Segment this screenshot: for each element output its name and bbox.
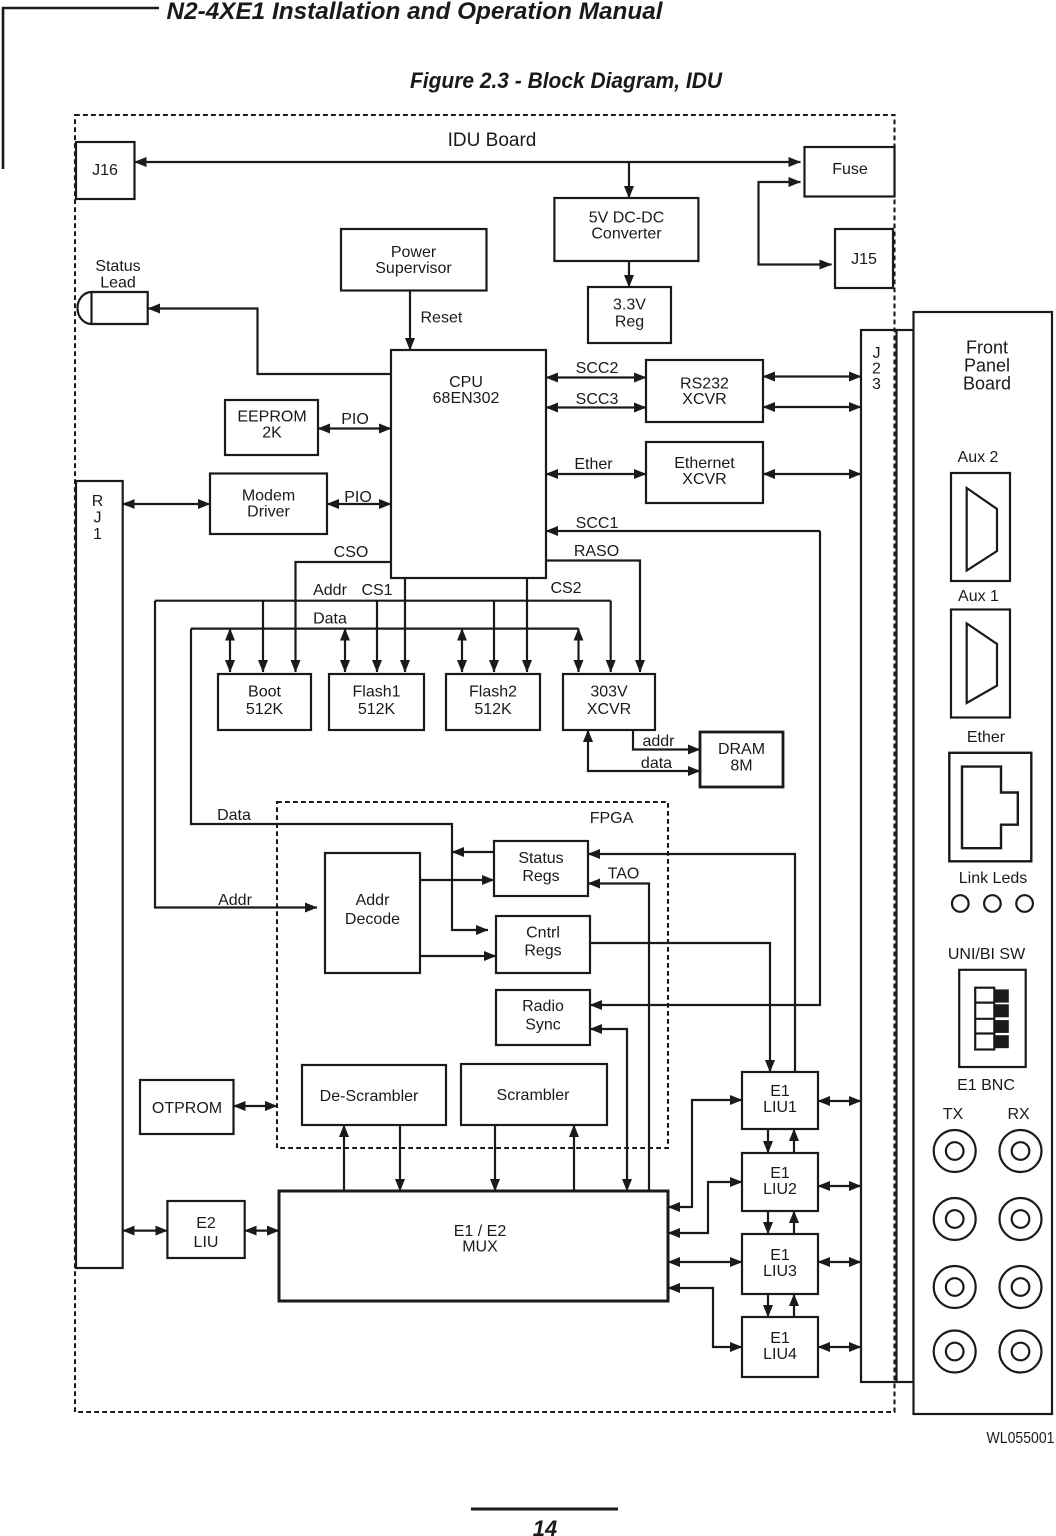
node E2 LIU — [167, 1201, 244, 1258]
wire Addr drop 303V — [610, 601, 612, 672]
wire to 5V converter — [628, 162, 630, 198]
svg-text:DRAM: DRAM — [718, 741, 765, 758]
svg-text:Regs: Regs — [522, 868, 559, 885]
wire LIU4 to LIU3 up — [793, 1294, 795, 1317]
wire data 303V to DRAM — [588, 730, 700, 771]
BNC TX 2 — [934, 1198, 976, 1240]
svg-text:SCC2: SCC2 — [576, 360, 619, 377]
svg-text:E1 BNC: E1 BNC — [957, 1077, 1015, 1094]
node J15 — [835, 229, 893, 288]
svg-text:XCVR: XCVR — [682, 391, 726, 408]
svg-text:data: data — [641, 755, 672, 772]
svg-text:1: 1 — [93, 526, 102, 543]
svg-text:Decode: Decode — [345, 911, 400, 928]
node Boot 512K — [218, 674, 311, 730]
wire MUX to De-Scrambler — [343, 1125, 345, 1191]
node Radio Sync — [496, 990, 590, 1045]
wire RJ1 to Modem Driver — [123, 503, 210, 505]
wire CS1 — [404, 578, 406, 672]
svg-text:PIO: PIO — [341, 411, 369, 428]
wire Data bus — [191, 627, 579, 629]
node J23 — [861, 330, 914, 1382]
node E1 LIU3 — [742, 1234, 818, 1294]
link led 2 — [984, 895, 1001, 912]
svg-text:Reg: Reg — [615, 314, 644, 331]
svg-text:Scrambler: Scrambler — [497, 1087, 571, 1104]
wire MUX to Scrambler — [573, 1125, 575, 1191]
svg-text:J: J — [873, 345, 881, 362]
page corner rule — [3, 8, 159, 169]
svg-text:303V: 303V — [590, 684, 628, 701]
wire Status Regs to data line — [452, 851, 494, 853]
svg-text:Flash2: Flash2 — [469, 684, 517, 701]
svg-text:WL055001: WL055001 — [987, 1430, 1055, 1447]
wire LIU3 to LIU4 down — [767, 1294, 769, 1317]
node Front Panel Board — [914, 312, 1053, 1414]
svg-text:SCC3: SCC3 — [576, 391, 619, 408]
svg-text:512K: 512K — [474, 701, 512, 718]
BNC TX 4 — [934, 1331, 976, 1373]
svg-text:Flash1: Flash1 — [352, 684, 400, 701]
node Modem Driver — [210, 474, 327, 535]
wire MUX to LIU3 — [668, 1261, 742, 1263]
svg-text:Ethernet: Ethernet — [674, 455, 735, 472]
svg-text:Addr: Addr — [356, 892, 390, 909]
svg-text:CS1: CS1 — [361, 582, 392, 599]
wire 5V to 3.3V reg — [628, 261, 630, 287]
svg-text:14: 14 — [533, 1516, 557, 1536]
wire LIU1 to Status Regs — [588, 854, 795, 1072]
wire Fuse to J15 — [759, 182, 832, 265]
svg-text:Front: Front — [966, 338, 1008, 358]
status LED — [78, 292, 148, 324]
node E1 LIU2 — [742, 1153, 818, 1211]
wire RJ1 to E2 LIU — [123, 1229, 168, 1231]
node Power Supervisor — [341, 229, 487, 291]
svg-text:RX: RX — [1007, 1106, 1030, 1123]
BNC TX 1 — [934, 1130, 976, 1172]
svg-text:Addr: Addr — [218, 892, 252, 909]
svg-text:De-Scrambler: De-Scrambler — [320, 1088, 419, 1105]
svg-text:TAO: TAO — [608, 866, 640, 883]
wire Data drop Boot — [229, 629, 231, 672]
node E1/E2 MUX — [279, 1191, 668, 1301]
wire PIO Modem to CPU — [327, 503, 391, 505]
svg-text:Power: Power — [391, 244, 437, 261]
wire MUX to LIU1 — [668, 1100, 742, 1207]
svg-text:E1: E1 — [770, 1083, 790, 1100]
svg-text:Ether: Ether — [574, 456, 613, 473]
wire LIU2 to LIU1 up — [793, 1129, 795, 1153]
wire LIU1 to LIU2 down — [767, 1129, 769, 1153]
wire Addr drop Flash1 — [376, 601, 378, 672]
svg-text:addr: addr — [642, 733, 675, 750]
svg-text:Aux 2: Aux 2 — [958, 449, 999, 466]
svg-text:8M: 8M — [730, 758, 752, 775]
svg-text:Regs: Regs — [524, 943, 561, 960]
link led 3 — [1016, 895, 1033, 912]
wire MUX to LIU4 — [668, 1288, 742, 1347]
connector Aux 2 — [951, 473, 1010, 581]
IDU board dashed border — [75, 115, 895, 1412]
wire Scrambler to MUX — [494, 1125, 496, 1191]
wire Addr bus — [155, 600, 611, 602]
wire RS232 to J23 upper — [763, 375, 861, 377]
wire Data drop Flash1 — [344, 629, 346, 672]
BNC TX 3 — [934, 1266, 976, 1308]
wire LIU1 to J23 — [818, 1100, 861, 1102]
svg-text:OTPROM: OTPROM — [152, 1100, 222, 1117]
svg-text:Ether: Ether — [967, 729, 1006, 746]
svg-text:E1: E1 — [770, 1247, 790, 1264]
svg-text:SCC1: SCC1 — [576, 515, 619, 532]
svg-text:Data: Data — [313, 611, 347, 628]
svg-text:Modem: Modem — [242, 487, 295, 504]
svg-text:Status: Status — [95, 258, 140, 275]
node E1 LIU1 — [742, 1072, 818, 1129]
node J16 — [76, 142, 135, 199]
wire CPU to status LED — [148, 309, 391, 375]
node Fuse — [805, 147, 895, 197]
svg-text:LIU: LIU — [194, 1234, 219, 1251]
connector Aux 1 — [951, 610, 1010, 718]
svg-text:E2: E2 — [196, 1215, 216, 1232]
node 303V XCVR — [563, 674, 655, 730]
svg-text:LIU3: LIU3 — [763, 1263, 797, 1280]
svg-text:2K: 2K — [262, 425, 282, 442]
wire De-Scrambler to MUX — [399, 1125, 401, 1191]
node Flash2 512K — [446, 674, 540, 730]
wire RASO — [546, 561, 640, 673]
svg-text:E1 / E2: E1 / E2 — [454, 1223, 507, 1240]
svg-text:LIU2: LIU2 — [763, 1181, 797, 1198]
wire PIO EEPROM to CPU — [318, 427, 391, 429]
wire LIU2 to LIU3 down — [767, 1211, 769, 1234]
svg-text:Status: Status — [518, 850, 563, 867]
svg-text:Aux 1: Aux 1 — [958, 588, 999, 605]
svg-text:UNI/BI SW: UNI/BI SW — [948, 946, 1026, 963]
svg-text:Link Leds: Link Leds — [959, 870, 1028, 887]
svg-text:N2-4XE1 Installation and Opera: N2-4XE1 Installation and Operation Manua… — [167, 0, 664, 25]
node Cntrl Regs — [496, 916, 590, 973]
dip switch UNI/BI — [959, 970, 1025, 1067]
node RJ1 — [76, 481, 123, 1268]
BNC RX 4 — [1000, 1331, 1042, 1373]
wire Ether — [546, 473, 646, 475]
svg-text:RS232: RS232 — [680, 376, 729, 393]
wire CS2 — [526, 578, 528, 672]
svg-text:XCVR: XCVR — [682, 471, 726, 488]
svg-text:EEPROM: EEPROM — [237, 409, 306, 426]
svg-text:Figure 2.3 - Block Diagram, ID: Figure 2.3 - Block Diagram, IDU — [410, 68, 723, 93]
wire LIU3 to J23 — [818, 1261, 861, 1263]
wire Data drop Flash2 — [461, 629, 463, 672]
link led 1 — [952, 895, 969, 912]
wire SCC2 — [546, 376, 646, 378]
wire Addr drop Flash2 — [493, 601, 495, 672]
node OTPROM — [140, 1080, 234, 1134]
wire addr 303V to DRAM — [633, 730, 700, 750]
node 5V DC-DC Converter — [554, 198, 698, 261]
wire Addr drop Boot — [262, 601, 264, 672]
node 3.3V Reg — [588, 287, 671, 343]
svg-text:Data: Data — [217, 807, 251, 824]
wire Reset: Power Supervisor to CPU — [409, 291, 411, 351]
svg-text:TX: TX — [943, 1106, 964, 1123]
svg-text:3.3V: 3.3V — [613, 297, 646, 314]
svg-text:Fuse: Fuse — [832, 161, 868, 178]
svg-text:2: 2 — [872, 361, 881, 378]
wire SCC1 from CPU — [546, 530, 820, 532]
svg-text:CS2: CS2 — [550, 580, 581, 597]
svg-text:512K: 512K — [358, 701, 396, 718]
svg-text:3: 3 — [872, 376, 881, 393]
wire Ethernet to J23 — [763, 473, 861, 475]
wire Cntrl Regs to LIU1 — [590, 943, 770, 1072]
node RS232 XCVR — [646, 360, 763, 422]
node CPU 68EN302 — [391, 350, 546, 578]
wire TAO: LIU mux line to Status Regs — [588, 884, 649, 1192]
wire CSO — [296, 562, 392, 672]
wire Addr Decode to Cntrl Regs — [420, 955, 496, 957]
svg-text:Addr: Addr — [313, 582, 347, 599]
node Ethernet XCVR — [646, 442, 763, 503]
wire Addr Decode to Status Regs — [420, 879, 494, 881]
wire E2 LIU to MUX — [245, 1229, 279, 1231]
wire LIU2 to J23 — [818, 1185, 861, 1187]
wire Radio Sync to MUX — [590, 1029, 627, 1191]
connector Ether RJ45 — [949, 753, 1031, 862]
node Scrambler — [461, 1064, 607, 1125]
svg-text:E1: E1 — [770, 1330, 790, 1347]
node Addr Decode — [325, 853, 420, 973]
node EEPROM 2K — [225, 400, 318, 455]
svg-text:Boot: Boot — [248, 684, 281, 701]
svg-text:MUX: MUX — [462, 1239, 498, 1256]
svg-text:Driver: Driver — [247, 503, 290, 520]
BNC RX 3 — [1000, 1266, 1042, 1308]
svg-text:Cntrl: Cntrl — [526, 925, 560, 942]
svg-text:IDU Board: IDU Board — [448, 130, 537, 151]
BNC RX 1 — [1000, 1130, 1042, 1172]
wire J16 to Fuse — [135, 161, 801, 163]
svg-text:Sync: Sync — [525, 1017, 561, 1034]
svg-text:LIU4: LIU4 — [763, 1346, 797, 1363]
svg-text:512K: 512K — [246, 701, 284, 718]
svg-text:Lead: Lead — [100, 275, 136, 292]
wire OTPROM to FPGA — [234, 1105, 278, 1107]
svg-text:LIU1: LIU1 — [763, 1099, 797, 1116]
svg-text:Panel: Panel — [964, 356, 1010, 376]
wire MUX to LIU2 — [668, 1182, 742, 1233]
svg-text:J16: J16 — [92, 162, 118, 179]
BNC RX 2 — [1000, 1198, 1042, 1240]
node Flash1 512K — [329, 674, 424, 730]
wire LIU3 to LIU2 up — [793, 1211, 795, 1234]
wire Addr to Addr Decode — [155, 601, 317, 908]
label Status Lead — [95, 258, 140, 292]
wire SCC3 — [546, 406, 646, 408]
node DRAM 8M — [700, 732, 783, 787]
wire SCC1 down to Radio Sync — [590, 531, 820, 1005]
svg-text:PIO: PIO — [344, 489, 372, 506]
svg-text:XCVR: XCVR — [587, 701, 631, 718]
svg-text:FPGA: FPGA — [590, 810, 634, 827]
svg-text:Converter: Converter — [591, 225, 662, 242]
wire Data drop 303V — [577, 629, 579, 672]
footer rule — [471, 1508, 618, 1511]
svg-text:E1: E1 — [770, 1165, 790, 1182]
wire RS232 to J23 lower — [763, 406, 861, 408]
svg-text:CSO: CSO — [334, 544, 369, 561]
svg-text:RASO: RASO — [574, 543, 619, 560]
node De-Scrambler — [302, 1065, 446, 1125]
wire LIU4 to J23 — [818, 1346, 861, 1348]
svg-text:Board: Board — [963, 374, 1011, 394]
FPGA dashed box — [277, 802, 668, 1148]
svg-text:Supervisor: Supervisor — [375, 260, 452, 277]
wire Data to FPGA regs — [191, 629, 488, 930]
svg-text:J: J — [94, 510, 102, 527]
svg-text:R: R — [92, 493, 104, 510]
svg-text:Radio: Radio — [522, 998, 564, 1015]
svg-text:CPU: CPU — [449, 374, 483, 391]
node E1 LIU4 — [742, 1317, 818, 1377]
svg-text:68EN302: 68EN302 — [433, 390, 500, 407]
node Status Regs — [494, 841, 588, 896]
svg-text:5V DC-DC: 5V DC-DC — [589, 210, 665, 227]
svg-text:Reset: Reset — [421, 310, 463, 327]
svg-text:J15: J15 — [851, 251, 877, 268]
